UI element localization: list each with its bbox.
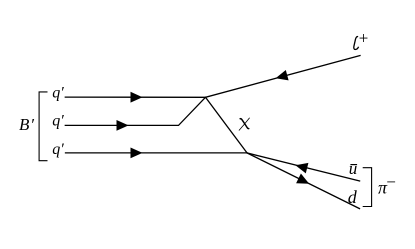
svg-text:q′: q′ (52, 113, 64, 130)
arrow on l+ line (points toward vertex) (276, 70, 289, 80)
label chi (239, 118, 250, 131)
arrow on bottom q' line (131, 148, 143, 159)
wire chi line (206, 97, 248, 153)
bracket left for B' (39, 92, 47, 161)
wire q' bottom line (66, 152, 248, 154)
wire lepton l+ line (206, 56, 361, 98)
svg-text:d: d (348, 187, 358, 207)
svg-text:−: − (385, 173, 396, 192)
wire q' middle line horizontal (65, 97, 205, 125)
arrow on top q' line (131, 92, 143, 103)
wire u-bar line (247, 153, 360, 181)
wire d line (247, 153, 360, 209)
label l+ lepton (354, 37, 359, 50)
svg-text:+: + (358, 29, 369, 48)
wire q' top line (65, 96, 205, 98)
arrow on u-bar line (points toward vertex) (295, 163, 308, 174)
svg-text:q′: q′ (52, 84, 64, 101)
svg-text:u: u (349, 159, 358, 178)
svg-text:B′: B′ (19, 115, 34, 134)
bracket right for pi- (363, 168, 372, 207)
svg-text:q′: q′ (52, 141, 64, 158)
overline of u-bar (350, 164, 357, 166)
arrow on d line (points away from vertex) (296, 174, 309, 184)
arrow on middle q' line (117, 120, 129, 131)
